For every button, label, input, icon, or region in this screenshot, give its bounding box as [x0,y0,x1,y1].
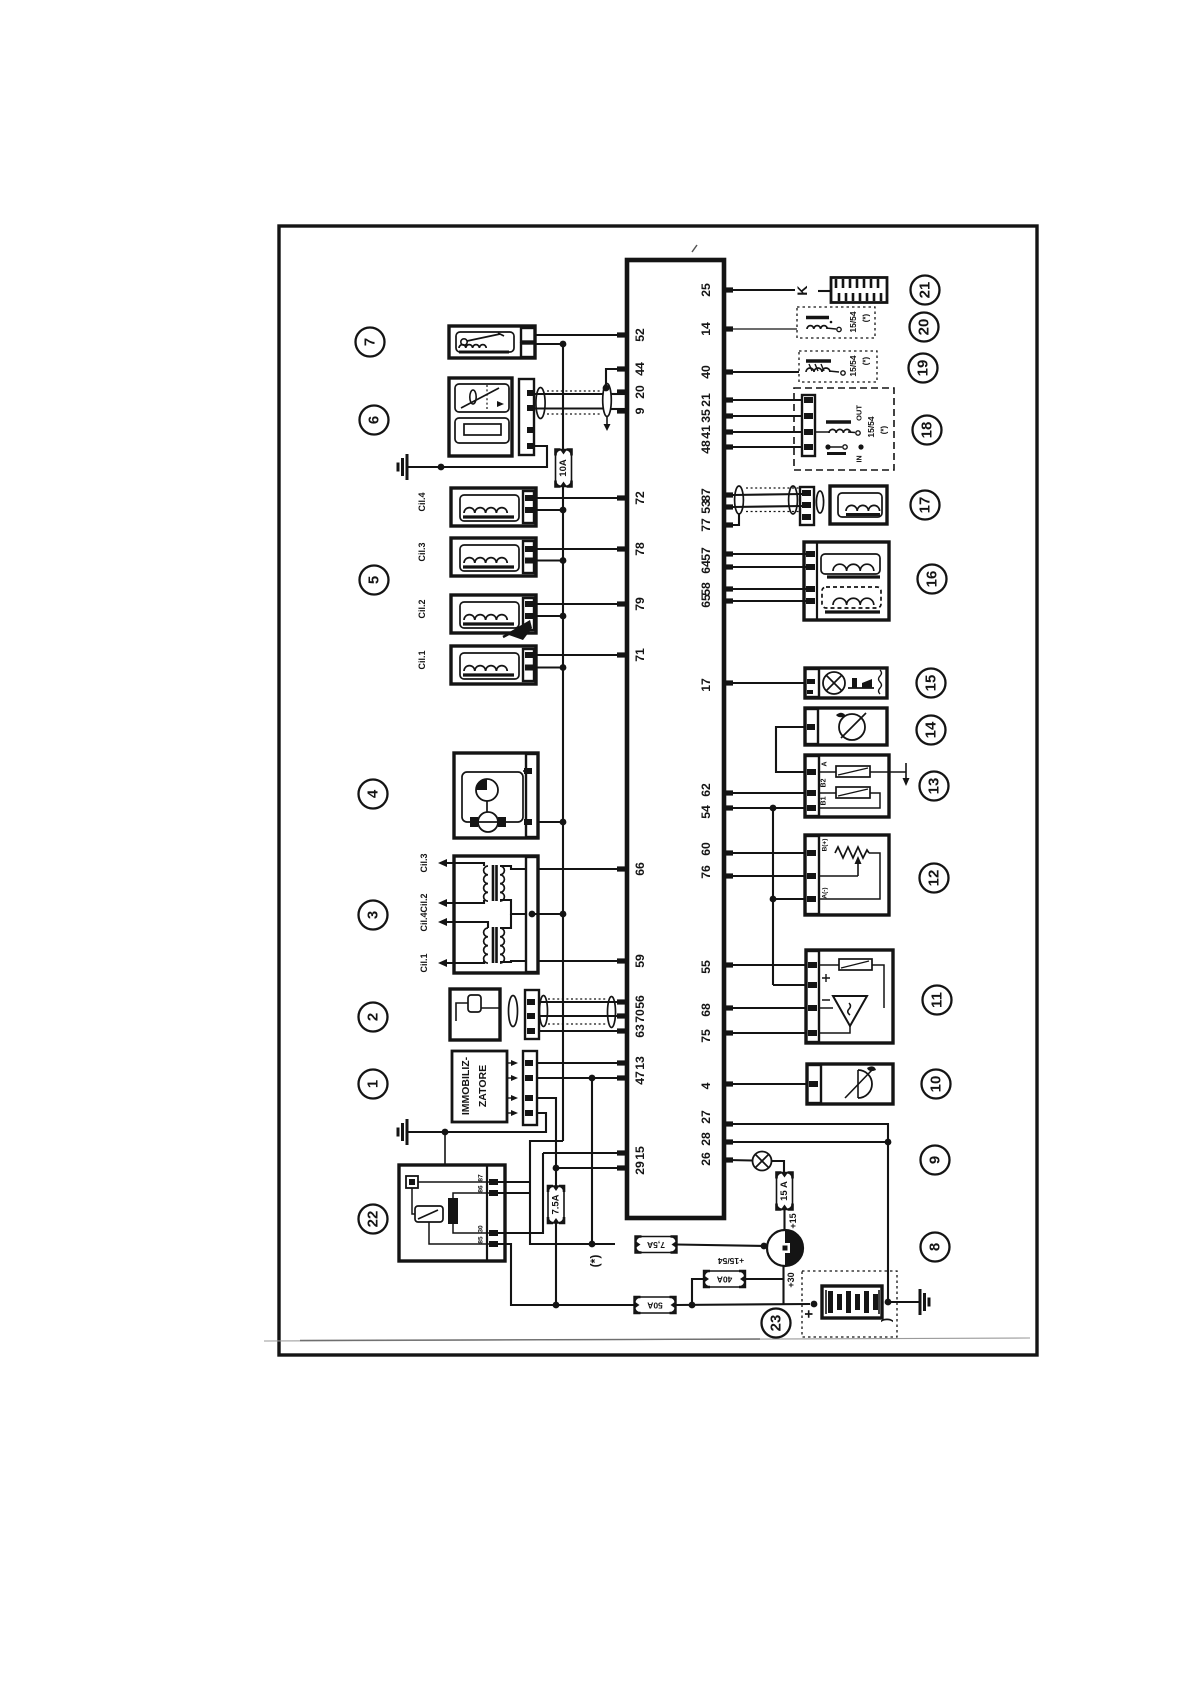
ECU pin 65 (right) stub [723,598,733,603]
ECU pin 66 (left) stub [617,866,627,871]
svg-text:15/54: 15/54 [866,416,876,438]
coil T1 windings [484,866,488,901]
wire fuse 15A to ignition switch [783,1208,785,1230]
junction VK line [553,1302,560,1309]
wire to ECU pin 15 [543,1152,627,1154]
wire 7 to ECU pin 52 [535,334,627,336]
component 11 heater resistor [839,959,872,970]
wire ECU pin53 to 17 [733,506,802,507]
svg-text:Cil.4: Cil.4 [419,912,429,931]
junction Cil.2 bus [560,613,567,620]
label circle 11 [923,986,952,1015]
svg-text:Cil.2: Cil.2 [417,599,427,618]
svg-text:65: 65 [699,594,713,608]
component 2 rpm sensor box [450,989,500,1040]
svg-text:20: 20 [633,385,647,399]
svg-text:40A: 40A [717,1275,733,1285]
wire ECU pin75 to 11 [733,1032,806,1034]
label circle 4 [359,780,388,809]
relay inner: switch [415,1206,443,1222]
svg-text:+15: +15 [788,1213,798,1228]
wire 6 to ECU pin 9 [535,407,603,409]
svg-text:4: 4 [699,1082,713,1089]
component 13 resistor 2 [836,787,870,798]
label circle 1 [359,1070,388,1099]
svg-text:22: 22 [365,1211,382,1228]
scan artifact line at bottom [264,1338,1030,1341]
component 6 connector pins [527,390,535,396]
component 3 ignition coils box [454,856,538,973]
component 21 diagnostic connector [831,278,887,303]
wire pin47 branch down to +15 node [591,1078,593,1244]
wire ECU pin55 to 11 [733,964,806,966]
svg-text:19: 19 [915,360,932,377]
spark outputs wiring [447,863,484,866]
junction pin28 [885,1139,892,1146]
wire ECU pin76 to 12 [733,875,805,877]
wire ECU pin14 to relay 20 [733,328,797,330]
svg-text:56: 56 [633,995,647,1009]
label circle 3 [359,901,388,930]
svg-text:1: 1 [365,1080,382,1088]
wire fuse 7.5A down to VK line [555,1223,557,1305]
component 12 internal wiring [819,875,858,877]
relay 20 coil [806,316,829,319]
svg-text:7: 7 [362,338,379,346]
label circle 16 [918,565,947,594]
junction Cil.3 bus [560,557,567,564]
wire ECU pin60 to 12 [733,852,805,854]
relay 18 connector strip [802,395,815,456]
svg-text:48: 48 [699,440,713,454]
ECU pin 52 (left) stub [617,332,627,337]
wire battery minus to ground G3 [888,1301,920,1303]
svg-text:47: 47 [633,1071,647,1085]
fuse 15A [777,1173,793,1210]
component 12 wiper arrow [857,862,859,876]
svg-text:68: 68 [699,1003,713,1017]
svg-text:14: 14 [699,322,713,336]
wire VK to battery [676,1304,811,1305]
ECU pin 59 (left) stub [617,958,627,963]
wire 6 to ECU pin 20 [535,393,603,395]
printing arrow artifact on Cil.2 [506,620,532,640]
wire ignition switch to +30 node [782,1266,784,1304]
injector box Cil.1 [451,646,536,684]
wire Cil.3 to bus [536,559,563,561]
component 6 resistor element [455,418,509,443]
ECU pin 72 (left) stub [617,495,627,500]
ECU pin 27 (right) stub [723,1121,733,1126]
wire bulb to fuse 15A [772,1161,785,1174]
svg-text:K: K [794,285,810,295]
wire ECU pin28 to battery bus [733,1141,888,1143]
junction at ignition switch terminal [761,1243,768,1250]
fuse T1A in +15 feed [636,1237,677,1253]
ECU pin 9 (left) stub [617,408,627,413]
svg-text:Cil.1: Cil.1 [417,650,427,669]
svg-text:78: 78 [633,542,647,556]
svg-text:85: 85 [478,1236,485,1244]
relay inner: terminal square [406,1176,418,1188]
svg-text:86: 86 [478,1185,485,1193]
ECU pin 48 (right) stub [723,444,733,449]
svg-text:21: 21 [699,393,713,407]
ECU pin 40 (right) stub [723,369,733,374]
wire 3 centre tap to bus [532,913,563,915]
ECU pin 76 (right) stub [723,873,733,878]
svg-text:15 A: 15 A [779,1181,790,1201]
wire K to diagnostic connector [818,290,831,292]
component 10 sensor symbol [858,1070,872,1098]
connector oval near ECU pins 20/9 [603,384,612,417]
svg-text:79: 79 [633,597,647,611]
screen dotted line upper [547,390,602,392]
ground G1 symbol [407,466,414,468]
component 16 coil 2 [822,587,881,608]
wire 2 to ECU pin 63 [539,1030,627,1032]
component 17 dotted screen lines [746,487,800,489]
svg-text:9: 9 [633,407,647,414]
svg-text:30: 30 [478,1225,485,1233]
ECU pin 47 (left) stub [617,1075,627,1080]
svg-text:A: A [822,761,829,766]
svg-text:Cil.3: Cil.3 [419,853,429,872]
component 15 warning lamp box [805,668,887,698]
ECU pin 68 (right) stub [723,1005,733,1010]
svg-text:77: 77 [699,518,713,532]
wire pin54 branch down [772,808,774,985]
svg-text:12: 12 [926,870,943,887]
wire branch up to 40A fuse [692,1279,705,1305]
component 22 main relay box [399,1165,505,1261]
wire branch to 12 pin3 [773,898,805,900]
wire ground G1 to component 6 [413,446,547,467]
junction 40A branch [689,1302,696,1309]
ECU pin 55 (right) stub [723,962,733,967]
component 17 connector strip [800,487,814,525]
wire pin44 jog to shield node [606,369,627,386]
svg-text:70: 70 [633,1009,647,1023]
svg-text:(*): (*) [880,425,889,434]
svg-text:Cil.2: Cil.2 [419,893,429,912]
junction Cil.1 bus [560,664,567,671]
svg-text:Cil.4: Cil.4 [417,492,427,511]
label circle 9 [921,1146,950,1175]
component 4 inner feed [523,770,526,772]
component 6 throttle symbol [455,384,509,412]
component 12 sensor box [805,835,889,915]
svg-text:53: 53 [699,500,713,514]
svg-text:23: 23 [768,1315,785,1332]
ECU pin 29 (left) stub [617,1165,627,1170]
screen dotted line lower [547,413,602,415]
battery body [822,1286,882,1318]
wire ECU pin4 to 10 [733,1083,807,1085]
ECU pin 53 (right) stub [723,504,733,509]
component 6 throttle body box [449,378,512,456]
fuse VK (50A) [635,1297,676,1313]
svg-text:13: 13 [633,1056,647,1070]
svg-text:35: 35 [699,409,713,423]
label circle 8 [921,1233,950,1262]
svg-text:66: 66 [633,862,647,876]
svg-text:41: 41 [699,425,713,439]
svg-text:62: 62 [699,783,713,797]
svg-text:52: 52 [633,328,647,342]
svg-text:ZATORE: ZATORE [477,1065,489,1107]
component 10 sensor box [807,1064,893,1104]
svg-text:(*): (*) [862,356,871,365]
wire 4 to bus [538,821,563,823]
svg-text:2: 2 [365,1013,382,1021]
junction ground wire to relay box [442,1129,449,1136]
svg-text:87: 87 [699,488,713,502]
connector oval B [540,996,548,1027]
wire resistor output arrow [870,771,906,773]
wire 1 pin3 to fuse 7.5A [537,1098,556,1186]
svg-text:15/54: 15/54 [848,355,858,377]
ECU pin 70 (left) stub [617,1013,627,1018]
component 12 resistor zigzag [835,847,869,858]
svg-text:+30: +30 [786,1272,796,1287]
ECU pin 26 (right) stub [723,1157,733,1162]
wire 3 to ECU pin 66 [538,868,627,870]
wire ECU pin25 to K-line [733,289,795,291]
svg-text:9: 9 [927,1156,944,1164]
svg-text:(*): (*) [862,313,871,322]
wire ECU pin27 to battery bus [733,1124,888,1142]
svg-text:59: 59 [633,954,647,968]
svg-text:75: 75 [699,1029,713,1043]
ECU pin 13 (left) stub [617,1060,627,1065]
svg-text:15: 15 [923,675,940,692]
wire Cil.2 to bus [536,615,563,617]
connector oval C near ECU [608,997,616,1028]
wire ECU pin54 to 13 [733,807,805,809]
svg-text:15: 15 [633,1146,647,1160]
svg-text:7.5A: 7.5A [551,1194,562,1214]
junction bus top [560,341,567,348]
wire 2 to ECU pin 56 [539,1001,627,1003]
junction pin29 tap [553,1165,560,1172]
ECU pin 60 (right) stub [723,850,733,855]
component 13 potentiometer box [805,755,889,817]
ECU connector block (central box) [627,260,724,1218]
connector oval pair near component 6 [536,388,545,419]
ECU pin 56 (left) stub [617,999,627,1004]
component 13 internal wiring [819,771,836,773]
diagram border frame [279,226,1037,1355]
wire 7 to supply bus [535,343,563,345]
wire T1A to ignition switch [677,1245,767,1247]
ECU pin 15 (left) stub [617,1150,627,1155]
svg-text:3: 3 [365,911,382,919]
injector box Cil.3 [451,538,536,576]
wire relay pin87 tap [498,1181,530,1183]
component 11 internal wiring [819,964,839,966]
svg-text:IN: IN [857,456,864,463]
svg-text:13: 13 [926,778,943,795]
label circle 18 [913,416,942,445]
svg-text:40: 40 [699,365,713,379]
shield drain arrow [606,417,608,426]
svg-text:18: 18 [919,422,936,439]
svg-text:87: 87 [478,1174,485,1182]
wire 1 pin4 to ground G2 [413,1113,546,1132]
component 18 relay dashed box [794,388,894,470]
svg-text:IMMOBILIZ-: IMMOBILIZ- [460,1056,472,1115]
component 14 sensor symbol [839,714,865,740]
fuse 40A [704,1271,745,1287]
component 17 connector cluster oval 2 [789,486,798,514]
junction 4 bus [560,819,567,826]
connector oval A [509,996,518,1027]
connector strip comp2 [525,990,539,1039]
junction on ground wire [438,464,445,471]
coil T2 windings [484,928,488,963]
ECU pin 58 (right) stub [723,586,733,591]
svg-text:72: 72 [633,491,647,505]
label circle 22 [359,1205,388,1234]
fuse 10A [556,450,572,487]
svg-text:A(-): A(-) [822,887,829,898]
component 19 relay dotted box [799,351,877,382]
label circle 2 [359,1003,388,1032]
junction centre tap [529,911,536,918]
ECU pin 57 (right) stub [723,551,733,556]
wire to ECU pin 29 [556,1167,627,1169]
ECU pin 77 (right) stub [723,522,733,527]
ECU pin 17 (right) stub [723,680,733,685]
svg-text:B1: B1 [821,796,828,805]
wire bus below fuse [562,487,564,1142]
relay 19 coil [806,359,831,362]
injector box Cil.2 [451,595,536,633]
svg-text:17: 17 [699,678,713,692]
label circle 23 [762,1309,791,1338]
svg-text:71: 71 [633,648,647,662]
svg-text:5: 5 [366,576,383,584]
svg-text:): ) [879,1318,894,1322]
component 4 fuel pump box [454,753,538,838]
svg-text:11: 11 [929,992,946,1008]
junction branch to 12 pin3 [770,896,777,903]
label circle 6 [360,406,389,435]
wire relay pin30 to ECU pin15 branch [498,1153,543,1233]
ECU pin 62 (right) stub [723,790,733,795]
component 15 lamp symbol [823,672,845,694]
label circle 10 [922,1070,951,1099]
ECU pin 79 (left) stub [617,601,627,606]
svg-text:29: 29 [633,1161,647,1175]
svg-text:7,5A: 7,5A [647,1240,665,1250]
wire Cil.1 to bus [536,666,563,668]
screen dotted lines comp2 [548,998,606,1000]
svg-text:10A: 10A [558,459,569,477]
ECU pin 20 (left) stub [617,389,627,394]
component 11 lambda sensor box [806,950,893,1043]
label circle 14 [917,716,946,745]
svg-text:15/54: 15/54 [848,311,858,333]
ECU pin 87 (right) stub [723,492,733,497]
relay pins [489,1179,498,1185]
svg-text:21: 21 [917,282,934,299]
wire ECU pin68 to 11 [733,1007,806,1009]
component 17 small oval 3 [816,491,823,513]
ECU pin 64 (right) stub [723,564,733,569]
wire 1 to ECU pin 47 [537,1077,627,1079]
svg-text:54: 54 [699,805,713,819]
wire Cil.4 to ECU [536,497,627,499]
ECU pin 35 (right) stub [723,413,733,418]
component 7 fuel level sender box [449,326,535,358]
svg-text:10: 10 [928,1076,945,1093]
label circle 19 [909,354,938,383]
wire bus elbow to +15 feed [530,1141,615,1244]
wire relay pin86 tap [498,1192,530,1194]
component 7 inner symbol [456,332,514,352]
svg-text:B(+): B(+) [822,839,829,852]
svg-text:+: + [801,1309,818,1318]
component 1 immobiliser box [452,1051,507,1122]
label circle 7 [356,328,385,357]
ECU pin 54 (right) stub [723,805,733,810]
label circle 17 [911,491,940,520]
ECU pin 4 (right) stub [723,1081,733,1086]
svg-text:55: 55 [699,960,713,974]
relay 18 contact [825,444,830,449]
battery plates [828,1291,833,1313]
injector box Cil.4 [451,488,536,526]
wire 1 to ECU pin 13 [537,1062,627,1064]
component 14 speed sensor box [805,708,887,745]
wire Cil.3 to ECU [536,548,627,550]
ECU pin 41 (right) stub [723,429,733,434]
svg-text:20: 20 [916,319,933,336]
junction battery minus terminal [885,1299,892,1306]
svg-text:16: 16 [924,571,941,588]
component 16 ignition coils box [804,542,889,620]
wire 2 to ECU pin 70 [539,1015,627,1017]
label circle 5 [360,566,389,595]
svg-text:B2: B2 [821,778,828,787]
svg-text:64: 64 [699,560,713,574]
warning lamp (bulb) on pin 26 [728,1159,752,1162]
wire Cil.4 to bus [536,509,563,511]
component 17 connector cluster oval 1 [735,486,744,514]
component 20 relay dotted box [797,307,875,338]
relay internal wiring [418,1181,489,1183]
svg-text:58: 58 [699,582,713,596]
ground G2 symbol [407,1131,414,1133]
spark plug arrows [438,859,447,867]
svg-text:25: 25 [699,283,713,297]
svg-text:Cil.1: Cil.1 [419,953,429,972]
svg-text:44: 44 [633,362,647,376]
wire Cil.1 to ECU [536,654,627,656]
label circle 20 [910,313,939,342]
ECU pin 44 (left) stub [617,366,627,371]
wire 3 to ECU pin 59 [538,960,627,962]
wire ECU pin17 to 15 [733,682,805,684]
ECU pin 71 (left) stub [617,652,627,657]
svg-text:76: 76 [699,865,713,879]
label circle 21 [911,276,940,305]
svg-text:50A: 50A [647,1301,663,1311]
component 16 coil 1 [821,554,880,574]
relay inner: coil [448,1198,458,1224]
